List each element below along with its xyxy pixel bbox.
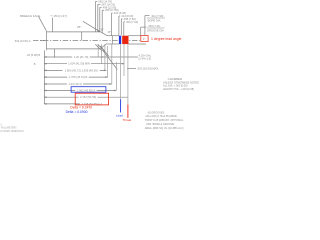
- svg-text:GROOVE DIA: GROOVE DIA: [147, 28, 164, 32]
- svg-text:AREA .0826 SQ. IN. [40.385 mm²: AREA .0826 SQ. IN. [40.385 mm²]: [145, 126, 184, 130]
- mouth ext: [111, 44, 113, 84]
- ladder dim row 8: 2.238 [56.85] A: [44, 102, 102, 106]
- neck fan diagonal 2: [98, 44, 105, 51]
- svg-text:15°: 15°: [107, 31, 111, 34]
- svg-text:Delta = 0.0900: Delta = 0.0900: [66, 110, 88, 114]
- svg-text:1.634 [41.50] MIN: 1.634 [41.50] MIN: [68, 62, 90, 66]
- neck bottom line: [106, 43, 119, 45]
- transfer diagonal: [103, 50, 118, 70]
- svg-text:MIN. BORE & GROOVE: MIN. BORE & GROOVE: [147, 122, 175, 126]
- lead angle box: [141, 36, 148, 42]
- breech face line: [46, 31, 48, 50]
- ladder dim row 2: 1.634 [41.50] MIN: [44, 61, 124, 65]
- svg-text:.532 [13.51] A: .532 [13.51] A: [14, 39, 31, 43]
- case mouth line: [111, 36, 113, 44]
- svg-text:2.152 [54.66]: 2.152 [54.66]: [80, 95, 96, 99]
- svg-text:.208 [0.750]: .208 [0.750]: [104, 8, 118, 12]
- chamber body top wall: [47, 31, 102, 33]
- bore top line: [128, 35, 140, 37]
- shoulder bottom: [100, 44, 106, 49]
- max length leader: [127, 68, 136, 70]
- throat ext: [127, 44, 129, 104]
- svg-text:1 degree lead angle: 1 degree lead angle: [151, 37, 181, 41]
- svg-text:.632 [16.05] MAX: .632 [16.05] MAX: [137, 66, 159, 70]
- neck fan diagonal 3: [100, 46, 108, 56]
- lead ext: [120, 44, 122, 99]
- shoulder angle leader: [83, 21, 100, 31]
- lead marker line (blue): [120, 99, 122, 112]
- bore dia leader: [144, 16, 146, 36]
- neck dim .300 [7.62]: [124, 22, 125, 36]
- chamber body bottom wall: [47, 48, 101, 50]
- groove dia leader: [140, 27, 142, 35]
- neck fan diagonal 1: [95, 44, 101, 50]
- svg-text:.110+.002 [2.79+0.05] WIDE: .110+.002 [2.79+0.05] WIDE: [145, 114, 177, 118]
- datum B extension line: [54, 49, 56, 58]
- ladder dim row 5: 1.94 [49.4]: [44, 82, 111, 86]
- ladder dim row 7: 2.152 [54.66]: [44, 95, 128, 99]
- svg-text:-MILLIMETERS: -MILLIMETERS: [1, 128, 18, 130]
- rim dim leader line: [51, 18, 53, 32]
- svg-text:.587 [14.91]: .587 [14.91]: [101, 2, 115, 6]
- svg-text:BORE DIA: BORE DIA: [148, 18, 161, 22]
- ext r1: [97, 44, 99, 57]
- svg-text:CHAMBER: CHAMBER: [168, 77, 182, 81]
- svg-text:.334 [8.48]: .334 [8.48]: [113, 11, 126, 15]
- throat highlight (red): [122, 36, 128, 44]
- ext r2: [101, 44, 103, 64]
- body reference tick: [81, 32, 83, 40]
- svg-text:1.705 [43.31] B: 1.705 [43.31] B: [69, 75, 88, 79]
- base dia leader tick: [40, 40, 45, 42]
- svg-text:.311 [7.90]: .311 [7.90]: [151, 14, 164, 18]
- blue box around lead dim: [71, 87, 106, 93]
- svg-text:TWIST 9.25 [235] RH. OPTIONAL: TWIST 9.25 [235] RH. OPTIONAL: [145, 118, 184, 122]
- svg-text:.20 [5.08] B: .20 [5.08] B: [26, 53, 40, 57]
- svg-text:.498 [12.65]: .498 [12.65]: [102, 5, 116, 9]
- neck top line: [107, 35, 119, 37]
- ladder dim row 6: 1.962 [49.85] A: [44, 88, 115, 92]
- ladder left extension line: [43, 50, 45, 104]
- neck dim .314 [8.00]: [119, 16, 120, 36]
- ext r4: [107, 46, 109, 77]
- svg-text:1.94 [49.4]: 1.94 [49.4]: [69, 82, 82, 86]
- svg-text:Throat: Throat: [123, 118, 132, 122]
- bore bottom line: [128, 43, 146, 45]
- ladder dim row 3: 1.800 [45.72] 1.905 [48.39]: [44, 68, 106, 72]
- svg-text:1.20 [31.70]: 1.20 [31.70]: [74, 55, 89, 59]
- neck dim .582 [14.78]: [96, 2, 98, 32]
- svg-text:ALL DIA. +.002 [0.05]: ALL DIA. +.002 [0.05]: [163, 84, 188, 88]
- svg-text:(6) GROOVES: (6) GROOVES: [148, 110, 165, 114]
- neck dim .587 [14.91]: [98, 4, 101, 31]
- svg-text:.314 [8.00]: .314 [8.00]: [121, 14, 134, 18]
- svg-text:.284 [7.21]: .284 [7.21]: [148, 24, 161, 28]
- svg-text:[2.94+1.5]: [2.94+1.5]: [139, 57, 152, 61]
- breech face leader: [39, 16, 47, 30]
- shoulder top: [101, 32, 107, 36]
- ladder dim row 1: 1.20 [31.70]: [44, 55, 137, 59]
- svg-text:25°: 25°: [77, 25, 82, 29]
- svg-text:1.800 [45.72] 1.905 [48.39]: 1.800 [45.72] 1.905 [48.39]: [65, 68, 98, 72]
- centerline: [33, 39, 140, 41]
- neck dim .308 [7.82]: [121, 19, 122, 36]
- ext c: [123, 44, 125, 76]
- ext r6: [115, 62, 117, 91]
- neck dim .208 [0.750]: [102, 10, 104, 33]
- ladder dim row 4: 1.705 [43.31] B: [44, 75, 107, 79]
- svg-text:LENGTH TOL. +.015 [0.38]: LENGTH TOL. +.015 [0.38]: [163, 87, 194, 91]
- svg-text:.308 [7.82]: .308 [7.82]: [123, 17, 136, 21]
- ext r3: [104, 44, 106, 70]
- neck dim .498 [12.65]: [100, 7, 102, 32]
- svg-text:BREECH FACE: BREECH FACE: [20, 14, 40, 18]
- neck dim .334 [8.48]: [111, 13, 112, 35]
- svg-text:UNLESS OTHERWISE NOTED: UNLESS OTHERWISE NOTED: [163, 80, 199, 84]
- svg-text:.300 [7.62]: .300 [7.62]: [125, 20, 138, 24]
- red box around throat dims: [75, 93, 108, 105]
- svg-text:.054 [1.37]: .054 [1.37]: [53, 14, 67, 18]
- throat marker line (red): [127, 105, 129, 118]
- svg-text:Lead: Lead: [116, 114, 123, 118]
- svg-text:Delta = 0.2470: Delta = 0.2470: [70, 105, 92, 109]
- lead highlight (blue): [119, 36, 121, 44]
